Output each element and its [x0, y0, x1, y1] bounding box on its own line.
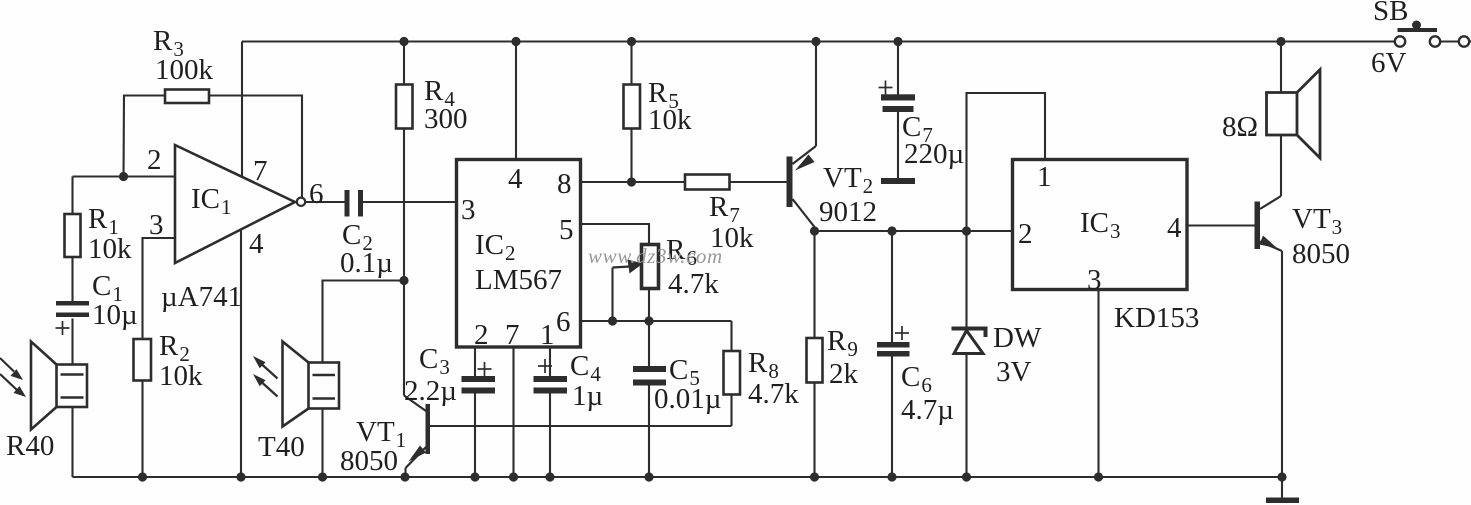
- wire IC1 pin3 line: [143, 238, 176, 339]
- speaker 8 ohm: [1267, 70, 1321, 159]
- svg-text:8050: 8050: [340, 445, 398, 477]
- wire IC2 pin4 supply: [515, 42, 517, 160]
- svg-text:DW: DW: [993, 322, 1042, 354]
- svg-text:300: 300: [424, 103, 468, 135]
- node DW top junction: [962, 226, 971, 235]
- svg-text:7: 7: [505, 319, 520, 351]
- wire R4 bottom lead: [403, 129, 405, 281]
- resistor R6 potentiometer: [642, 245, 659, 289]
- label IC1: [161, 183, 242, 313]
- svg-text:220µ: 220µ: [904, 138, 964, 170]
- wire C2 to IC2 pin3: [363, 201, 457, 203]
- node IC1 output ring pin6: [297, 198, 305, 206]
- wire IC1 output to C2: [305, 201, 344, 203]
- capacitor C3: [462, 376, 496, 394]
- capacitor C1: [56, 301, 89, 317]
- label C7: [902, 111, 964, 170]
- label IC3 pins: [1018, 161, 1182, 296]
- wire R7 to VT2 base: [730, 181, 787, 183]
- node R6 pin6 junction: [644, 316, 653, 325]
- wire IC2 pin1 lead: [549, 347, 551, 376]
- svg-text:R40: R40: [6, 430, 54, 462]
- node rail junction dots bottom: [138, 472, 1103, 481]
- node R40 wave arrow 1: [0, 358, 23, 380]
- node speaker rail junction: [1276, 37, 1285, 46]
- switch SB pushbutton: [1395, 21, 1471, 47]
- node VT2 emitter rail junction: [811, 37, 820, 46]
- label T40: [258, 431, 305, 463]
- svg-text:1µ: 1µ: [572, 380, 603, 412]
- svg-text:3V: 3V: [996, 356, 1032, 388]
- label C2: [340, 219, 393, 279]
- label R8: [748, 347, 799, 410]
- svg-text:3: 3: [461, 194, 476, 226]
- label C3: [404, 343, 457, 407]
- capacitor C5: [633, 366, 666, 386]
- wire C6 top lead: [891, 231, 893, 342]
- transistor Q3 VT3: [1255, 135, 1283, 477]
- svg-text:2: 2: [1018, 218, 1033, 250]
- svg-text:2: 2: [474, 319, 489, 351]
- svg-text:VT2: VT2: [823, 162, 873, 198]
- wire IC3 pin3 to ground: [1097, 290, 1099, 478]
- resistor R5: [624, 85, 641, 129]
- transistor Q2 VT2: [787, 42, 817, 232]
- node R40 wave arrow 2: [0, 374, 26, 397]
- ground C7 bar: [881, 178, 915, 184]
- wire VT2 collector line to IC3 pin2: [815, 230, 1013, 232]
- svg-text:IC2: IC2: [475, 229, 516, 265]
- wire R5 bottom lead: [630, 129, 632, 183]
- node VT3 emitter rail junction: [1277, 472, 1286, 481]
- label VT2: [819, 162, 877, 228]
- label R9: [827, 325, 859, 390]
- wire IC2 pin8 line: [581, 181, 686, 183]
- resistor R2: [134, 339, 152, 381]
- svg-text:2: 2: [147, 144, 162, 176]
- node T40 wave arrow 2: [253, 374, 278, 397]
- IC U2 LM567 box: [457, 160, 581, 348]
- label C4: [570, 350, 603, 412]
- label R7: [709, 191, 754, 254]
- svg-text:KD153: KD153: [1114, 302, 1199, 334]
- svg-text:C3: C3: [419, 343, 450, 379]
- svg-text:7: 7: [253, 155, 268, 187]
- label speaker 8 ohm: [1222, 111, 1258, 143]
- svg-text:10k: 10k: [648, 104, 692, 136]
- wire R3 to IC1 output: [209, 96, 302, 203]
- wire C1 to R40: [71, 319, 73, 365]
- svg-text:0.01µ: 0.01µ: [654, 383, 721, 415]
- node C7 rail junction: [893, 37, 902, 46]
- wire IC1 pin4 to ground: [240, 230, 242, 478]
- wire R4 top lead: [403, 42, 405, 85]
- capacitor C7: [881, 94, 915, 112]
- svg-text:3: 3: [149, 209, 164, 241]
- label R6: [666, 234, 719, 300]
- label IC2: [475, 229, 562, 296]
- wire IC2 pin5 to R6: [581, 224, 650, 245]
- node C6 top junction: [887, 226, 896, 235]
- node wiper pin6 junction: [608, 316, 617, 325]
- wire pin2 input line: [73, 175, 176, 177]
- svg-text:100k: 100k: [155, 54, 214, 86]
- wire R8 top lead: [730, 321, 732, 351]
- wire R8 bottom to base line: [730, 395, 732, 427]
- svg-text:4.7k: 4.7k: [748, 378, 799, 410]
- node T40 wave arrow 1: [253, 356, 278, 379]
- wire C7 bottom lead: [897, 112, 899, 178]
- wire IC2 pin6 line: [581, 320, 732, 322]
- svg-text:4: 4: [1167, 212, 1182, 244]
- wire R9 to ground rail: [813, 383, 815, 478]
- svg-text:IC3: IC3: [1080, 207, 1121, 243]
- label C6: [901, 361, 954, 426]
- svg-text:1: 1: [540, 319, 555, 351]
- svg-text:8050: 8050: [1292, 238, 1350, 270]
- svg-text:3: 3: [1087, 264, 1102, 296]
- svg-text:10µ: 10µ: [92, 299, 138, 331]
- transducer R40: [31, 342, 87, 430]
- wire pin2 node loop to IC3 pin1: [967, 93, 1046, 231]
- svg-text:SB: SB: [1373, 0, 1408, 27]
- resistor R8: [724, 351, 741, 395]
- svg-text:µA741: µA741: [161, 281, 242, 313]
- wire C7 top lead: [897, 42, 899, 95]
- wire speaker top lead: [1280, 42, 1282, 93]
- label VT1: [340, 416, 406, 477]
- wire R1 top lead: [71, 177, 73, 215]
- svg-text:4.7µ: 4.7µ: [901, 394, 954, 426]
- node R5 pin8 junction: [627, 177, 636, 186]
- label C1: [92, 270, 138, 331]
- ground: [1266, 477, 1299, 503]
- wire VT1 base line: [430, 425, 732, 427]
- transducer T40: [283, 342, 340, 427]
- label R40: [6, 430, 54, 462]
- wire node A up to R3: [124, 96, 166, 177]
- node R6 wiper arrow: [613, 260, 644, 322]
- svg-text:VT3: VT3: [1292, 203, 1342, 239]
- svg-text:8: 8: [557, 168, 572, 200]
- wire IC3 pin4 to VT3 base: [1187, 224, 1255, 226]
- wire R6 bottom lead: [648, 289, 650, 322]
- capacitor C4: [534, 376, 568, 394]
- label SB: [1371, 0, 1408, 79]
- svg-text:4: 4: [249, 228, 264, 260]
- wire top +6V rail: [242, 40, 1395, 42]
- svg-text:5: 5: [559, 214, 574, 246]
- svg-text:6: 6: [556, 306, 571, 338]
- wire R5 top lead: [630, 42, 632, 85]
- node R4 T40 VT1 junction: [399, 276, 408, 285]
- svg-text:10k: 10k: [88, 233, 132, 265]
- capacitor C2: [345, 190, 364, 217]
- label VT3: [1292, 203, 1350, 270]
- svg-text:6: 6: [309, 178, 324, 210]
- node pin4 rail junction: [511, 37, 520, 46]
- svg-text:R9: R9: [827, 325, 858, 361]
- resistor R7: [685, 175, 730, 190]
- IC U3 KD153 box: [1013, 160, 1188, 290]
- wire DW top lead: [965, 231, 967, 327]
- wire T40 to ground rail: [321, 409, 323, 478]
- watermark: [588, 244, 723, 268]
- wire DW to ground rail: [965, 354, 967, 478]
- svg-text:IC1: IC1: [191, 183, 232, 219]
- wire R2 to ground rail: [141, 381, 143, 478]
- wire IC2 pin7 to ground: [512, 347, 514, 477]
- op-amp U1 IC1 triangle: [175, 145, 295, 263]
- svg-text:4.7k: 4.7k: [668, 268, 719, 300]
- svg-text:2k: 2k: [829, 358, 859, 390]
- node R4 rail junction: [399, 37, 408, 46]
- svg-text:www.dz3w.com: www.dz3w.com: [588, 244, 723, 268]
- svg-text:LM567: LM567: [475, 264, 562, 296]
- resistor R1: [65, 214, 81, 257]
- svg-text:T40: T40: [258, 431, 305, 463]
- node R5 rail junction: [627, 37, 636, 46]
- resistor R9: [807, 338, 823, 383]
- svg-text:9012: 9012: [819, 196, 877, 228]
- svg-text:2.2µ: 2.2µ: [404, 375, 457, 407]
- wire C6 to ground rail: [891, 357, 893, 478]
- label IC2 pins: [461, 163, 574, 351]
- wire junction to T40: [323, 281, 405, 363]
- wire bottom ground rail: [73, 476, 1283, 478]
- svg-text:6V: 6V: [1371, 47, 1407, 79]
- node A inverting input junction: [119, 172, 128, 181]
- svg-text:1: 1: [1037, 161, 1052, 193]
- svg-text:8Ω: 8Ω: [1222, 111, 1258, 143]
- wire C4 to ground rail: [549, 394, 551, 478]
- svg-text:C6: C6: [901, 361, 932, 397]
- label DW: [993, 322, 1042, 388]
- wire C3 to ground rail: [474, 394, 476, 478]
- diode DW zener: [952, 329, 986, 354]
- label R1: [88, 203, 132, 265]
- svg-text:0.1µ: 0.1µ: [340, 247, 393, 279]
- wire R9 top lead: [813, 231, 815, 338]
- wire C5 to ground rail: [648, 386, 650, 478]
- label IC1 pins: [147, 144, 324, 260]
- resistor R4: [396, 85, 413, 129]
- label R4: [424, 75, 468, 135]
- wire R40 to ground rail: [71, 407, 73, 477]
- resistor R3: [165, 90, 209, 104]
- svg-text:4: 4: [508, 163, 523, 195]
- label R2: [159, 330, 203, 392]
- node VT2 collector junction: [810, 226, 819, 235]
- label R3: [153, 25, 214, 86]
- wire R1 to C1: [71, 257, 73, 302]
- label IC3: [1080, 207, 1199, 334]
- wire C5 top lead: [648, 321, 650, 366]
- svg-text:10k: 10k: [159, 360, 203, 392]
- transistor Q1 VT1: [404, 281, 430, 478]
- wire IC2 pin2 lead: [474, 347, 476, 376]
- capacitor C6: [877, 342, 910, 357]
- wire IC1 pin7 supply: [241, 42, 243, 178]
- label R5: [648, 77, 692, 136]
- label C5: [654, 354, 721, 415]
